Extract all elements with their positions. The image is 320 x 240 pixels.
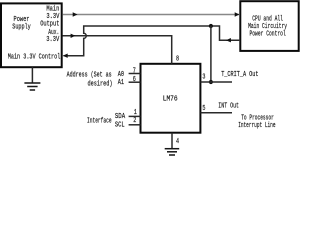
- junction dot control net / T_CRIT_A riser: [209, 24, 213, 28]
- label Address (Set as desired): [67, 71, 113, 88]
- svg-text:8: 8: [176, 55, 179, 63]
- arrow main rail into CPU: [235, 12, 240, 16]
- svg-text:5: 5: [202, 104, 205, 112]
- svg-text:Power Control: Power Control: [249, 29, 285, 37]
- svg-text:desired): desired): [88, 80, 113, 88]
- wire PS ground stub: [31, 67, 33, 82]
- svg-text:A1: A1: [118, 78, 124, 86]
- svg-text:6: 6: [133, 75, 136, 83]
- pin 3 wire T_CRIT_A Out: [200, 81, 232, 83]
- label Aux. 3.3V: [46, 28, 59, 43]
- svg-text:INT Out: INT Out: [218, 102, 239, 110]
- svg-text:7: 7: [133, 67, 136, 75]
- wire control net (PS control - CPU control - T_CRIT_A): [64, 26, 240, 56]
- svg-text:4: 4: [176, 137, 179, 145]
- svg-text:3: 3: [202, 73, 205, 81]
- svg-text:SDA: SDA: [115, 112, 125, 120]
- pin 4 wire to ground: [171, 133, 173, 148]
- wire T_CRIT_A riser: [210, 26, 212, 82]
- arrow on CPU control segment pointing left: [226, 38, 231, 42]
- junction dot on pin 3 wire: [209, 80, 213, 84]
- pin 2 stub SCL: [129, 124, 141, 126]
- pin 6 stub A1: [129, 81, 141, 83]
- svg-text:Interrupt Line: Interrupt Line: [238, 121, 275, 129]
- label To Processor Interrupt Line: [238, 114, 275, 130]
- svg-text:SCL: SCL: [115, 121, 125, 129]
- svg-text:Output: Output: [40, 19, 59, 27]
- svg-text:Address (Set as: Address (Set as: [67, 71, 112, 79]
- wire aux 3.3V (PS to LM76 pin 8): [63, 36, 172, 64]
- label Main 3.3V Output: [40, 5, 59, 28]
- power supply box U-PS: [1, 3, 62, 67]
- svg-text:Supply: Supply: [12, 23, 31, 31]
- svg-text:Interface: Interface: [87, 116, 112, 124]
- label CPU and All Main Circuitry Power Control: [248, 15, 287, 38]
- svg-text:T_CRIT_A Out: T_CRIT_A Out: [221, 70, 258, 78]
- arrow into PS control input: [63, 54, 68, 58]
- pin 1 stub SDA: [129, 115, 141, 117]
- arrow on main rail near PS: [73, 12, 78, 16]
- pin 7 stub A0: [129, 73, 141, 75]
- svg-text:3.3V: 3.3V: [46, 35, 59, 43]
- label Power Supply: [12, 15, 31, 31]
- pin 5 wire INT Out: [200, 112, 232, 114]
- arrow on aux wire: [71, 34, 76, 38]
- CPU box U-CPU: [240, 1, 298, 51]
- svg-text:2: 2: [133, 116, 136, 124]
- wire main 3.3V rail (PS to CPU): [63, 14, 240, 16]
- ground symbol under power supply: [24, 83, 40, 90]
- svg-text:Main 3.3V Control: Main 3.3V Control: [8, 53, 61, 61]
- ground symbol under LM76: [165, 149, 180, 155]
- svg-text:LM76: LM76: [163, 95, 178, 103]
- LM76 box U1: [141, 64, 201, 133]
